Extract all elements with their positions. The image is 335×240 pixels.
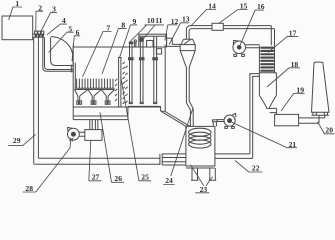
label 23 bbox=[191, 165, 213, 194]
label 16 bbox=[240, 2, 265, 45]
wire pipe from box1 bbox=[33, 34, 44, 37]
fan 22 bbox=[224, 113, 236, 128]
label 15 bbox=[219, 1, 248, 23]
chamber bottom collection box 26 bbox=[73, 106, 165, 119]
fan 28 bbox=[68, 128, 85, 142]
svg-text:13: 13 bbox=[182, 15, 190, 24]
cyclone dust pipe down bbox=[186, 67, 193, 126]
label 1 bbox=[9, 0, 23, 20]
label 12 bbox=[165, 17, 179, 41]
label 26 bbox=[100, 113, 124, 183]
duct chamber to discharge box bbox=[90, 120, 98, 130]
chamber 7 outline bbox=[73, 45, 165, 112]
spray nozzle teeth bbox=[75, 79, 115, 90]
label 11 bbox=[141, 16, 163, 41]
svg-text:26: 26 bbox=[114, 174, 122, 183]
label 24 bbox=[163, 109, 193, 186]
svg-text:7: 7 bbox=[106, 23, 110, 32]
wire loop right riser (pipe 21) bbox=[250, 74, 260, 159]
tank top stub to fan 22 bbox=[212, 120, 224, 127]
wire pipe 19 to chimney bbox=[299, 115, 325, 123]
svg-text:11: 11 bbox=[155, 16, 162, 25]
outlet step to duct 12 bbox=[167, 38, 181, 46]
svg-text:29: 29 bbox=[13, 136, 21, 145]
flange joint blocks (2,3) bbox=[35, 31, 44, 36]
label 10 bbox=[129, 16, 164, 43]
cyclone outlet pipe to top bbox=[186, 26, 212, 40]
label 21 bbox=[232, 122, 297, 149]
discharge box 27 bbox=[85, 130, 102, 141]
svg-text:25: 25 bbox=[141, 172, 149, 181]
label 8 bbox=[102, 20, 127, 74]
svg-text:27: 27 bbox=[92, 172, 100, 181]
wire loop upper run into tank bbox=[162, 154, 253, 165]
svg-text:20: 20 bbox=[325, 126, 333, 135]
svg-text:10: 10 bbox=[147, 16, 155, 25]
cyclone 13 bbox=[180, 39, 195, 67]
svg-text:16: 16 bbox=[257, 2, 265, 11]
chimney 20 bbox=[312, 62, 330, 115]
label 25 bbox=[121, 77, 151, 181]
label 9 bbox=[120, 17, 138, 57]
label 6 bbox=[72, 28, 80, 61]
label 19 bbox=[281, 85, 305, 111]
label 29 bbox=[8, 134, 35, 145]
baffle plate (element 9) with louvres bbox=[115, 58, 128, 107]
curved duct 5 bbox=[43, 37, 73, 73]
svg-text:22: 22 bbox=[252, 164, 260, 173]
tank 23 with coil bbox=[186, 126, 216, 180]
label 27 bbox=[89, 141, 102, 181]
svg-text:15: 15 bbox=[240, 1, 248, 10]
V hoppers 25 bbox=[75, 90, 115, 105]
label 4 bbox=[47, 16, 67, 35]
svg-text:3: 3 bbox=[52, 4, 56, 13]
label 22 bbox=[235, 161, 262, 173]
header box on roof bbox=[139, 34, 167, 47]
heat exchanger coil 17 bbox=[259, 45, 274, 72]
electrode plate 3 bbox=[153, 37, 158, 104]
label 3 bbox=[41, 4, 57, 31]
label 17 bbox=[268, 29, 298, 53]
label 2 bbox=[36, 3, 44, 30]
chute chamber to tank bbox=[161, 111, 190, 126]
label 18 bbox=[267, 60, 300, 87]
hanger stub left of header bbox=[134, 40, 136, 47]
label 7 bbox=[83, 23, 112, 77]
label 28 bbox=[23, 141, 71, 193]
box 1 (feed unit) bbox=[2, 16, 33, 40]
wire recirculation loop left vertical bbox=[34, 37, 39, 164]
svg-text:24: 24 bbox=[165, 176, 173, 185]
label 20 bbox=[318, 122, 335, 135]
electrode plate 1 bbox=[129, 42, 134, 104]
small box below roof at top-right bbox=[156, 49, 161, 54]
flange at chamber inlet 6 bbox=[73, 63, 75, 89]
box 19 bbox=[275, 114, 299, 125]
svg-text:14: 14 bbox=[208, 1, 216, 10]
label 5 bbox=[49, 24, 74, 52]
wire pipe 15 to right bbox=[223, 26, 274, 46]
label 13 bbox=[169, 15, 190, 45]
electrode plate 2 bbox=[139, 37, 144, 104]
vessel 18 bbox=[259, 73, 276, 115]
fan 16 bbox=[233, 41, 260, 57]
wire recirculation loop bottom run bbox=[34, 154, 163, 165]
box 15 bbox=[212, 23, 223, 30]
label 14 bbox=[191, 1, 216, 26]
